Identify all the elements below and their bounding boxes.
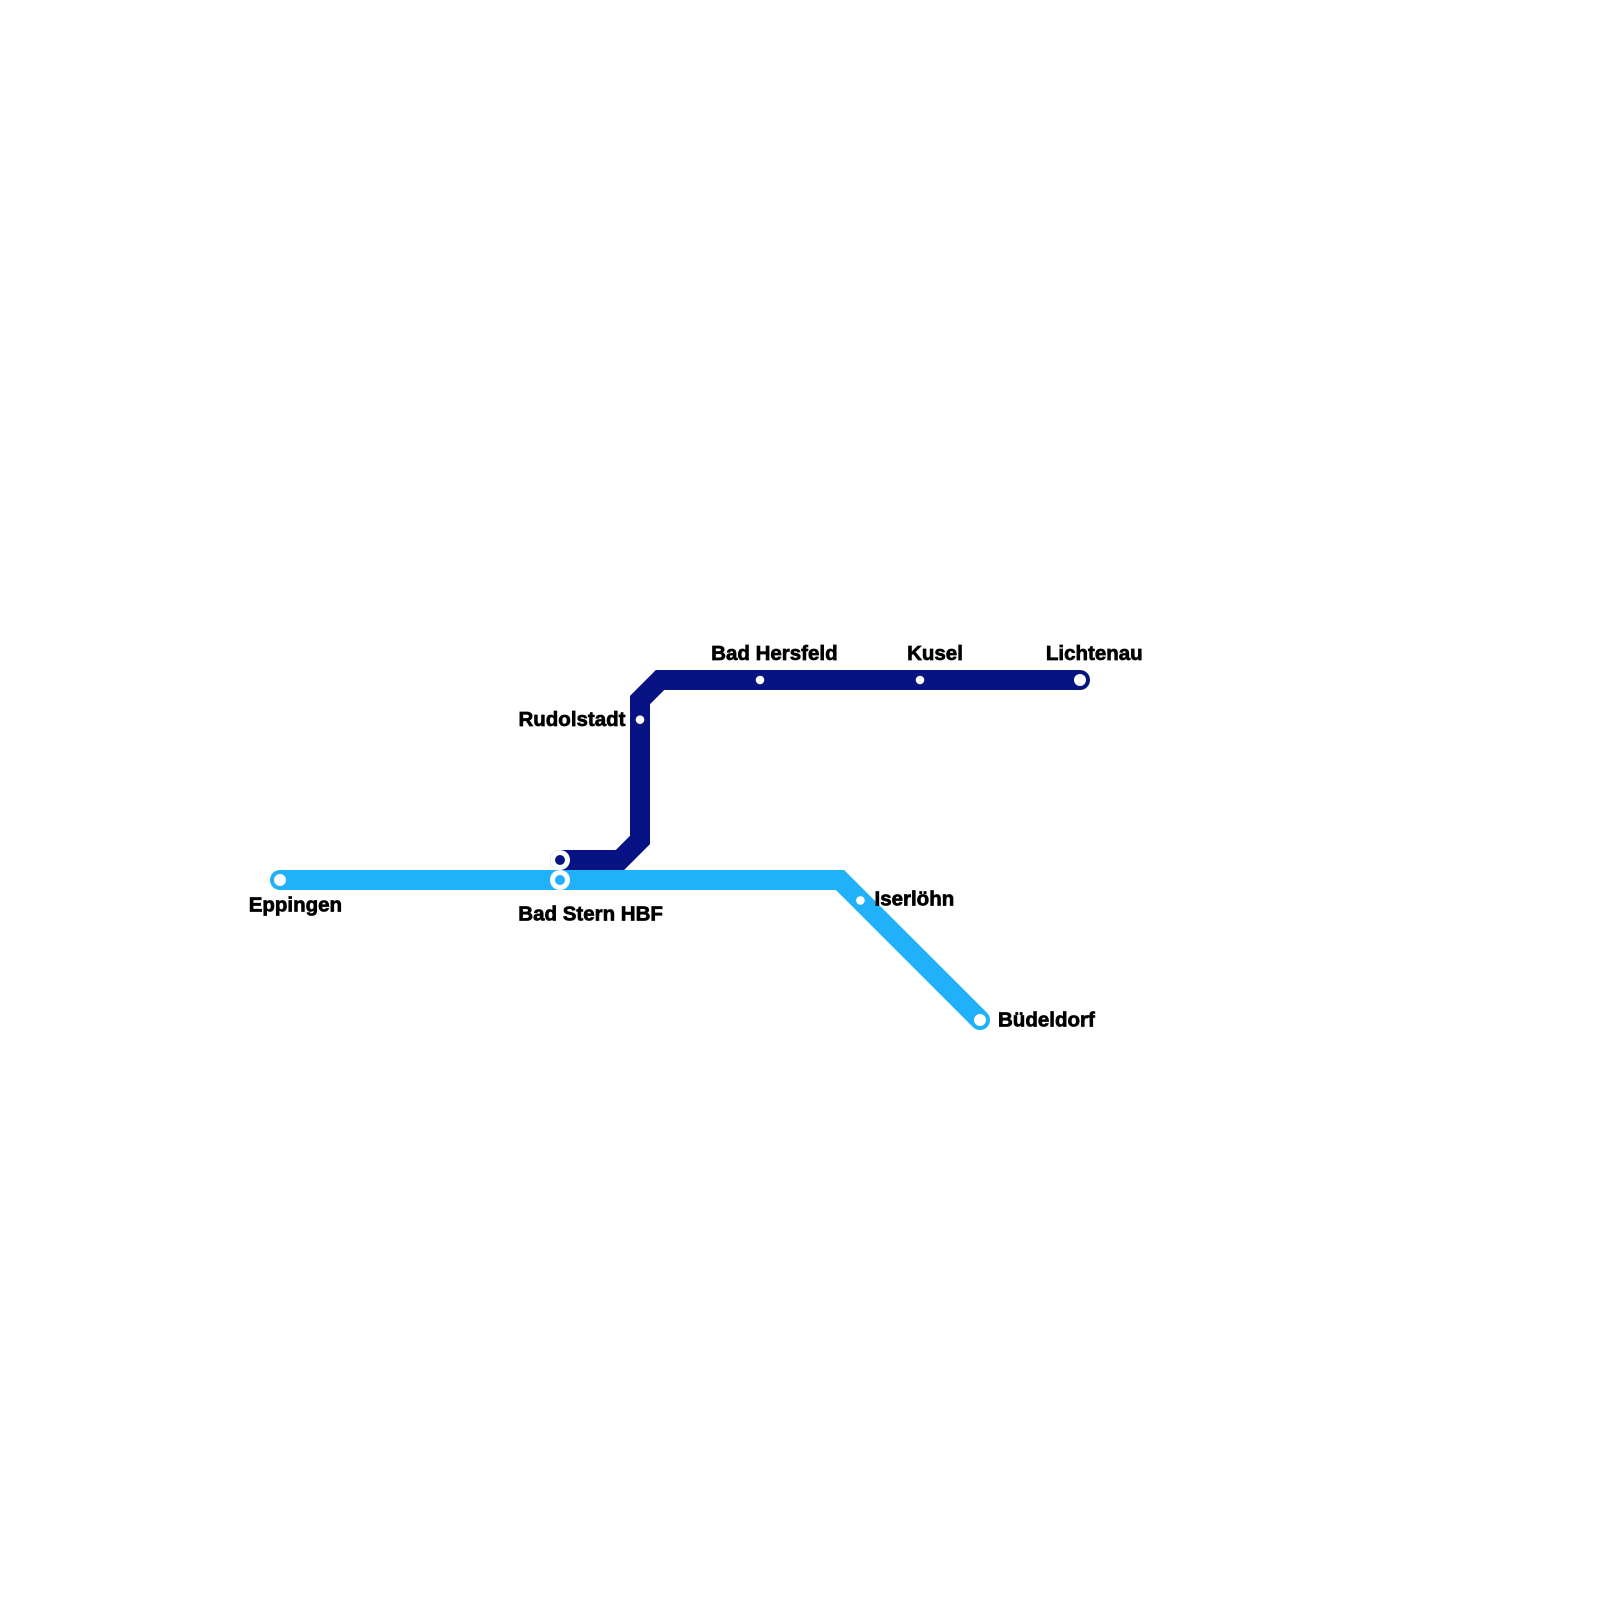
station Kusel xyxy=(916,676,925,685)
svg-text:Bad Stern HBF: Bad Stern HBF xyxy=(518,903,663,926)
svg-text:Eppingen: Eppingen xyxy=(249,893,342,916)
svg-text:Büdeldorf: Büdeldorf xyxy=(998,1008,1095,1031)
svg-text:Rudolstadt: Rudolstadt xyxy=(518,708,625,731)
svg-text:Kusel: Kusel xyxy=(907,642,963,665)
interchange Bad Stern HBF cyan ring xyxy=(550,870,570,890)
svg-text:Iserlöhn: Iserlöhn xyxy=(875,887,955,910)
station Bad Hersfeld xyxy=(756,676,765,685)
terminus Eppingen xyxy=(274,874,286,886)
station Iserlohn xyxy=(856,896,865,905)
line L1 navy Bad Stern HBF-Lichtenau xyxy=(560,680,1080,860)
svg-text:Bad Hersfeld: Bad Hersfeld xyxy=(711,642,837,665)
interchange Bad Stern HBF navy ring xyxy=(550,850,570,870)
terminus Budeldorf xyxy=(974,1014,986,1026)
svg-text:Lichtenau: Lichtenau xyxy=(1046,642,1143,665)
line L2 light blue Eppingen-Budeldorf xyxy=(280,880,980,1020)
terminus Lichtenau xyxy=(1074,674,1086,686)
station Rudolstadt xyxy=(636,715,645,724)
